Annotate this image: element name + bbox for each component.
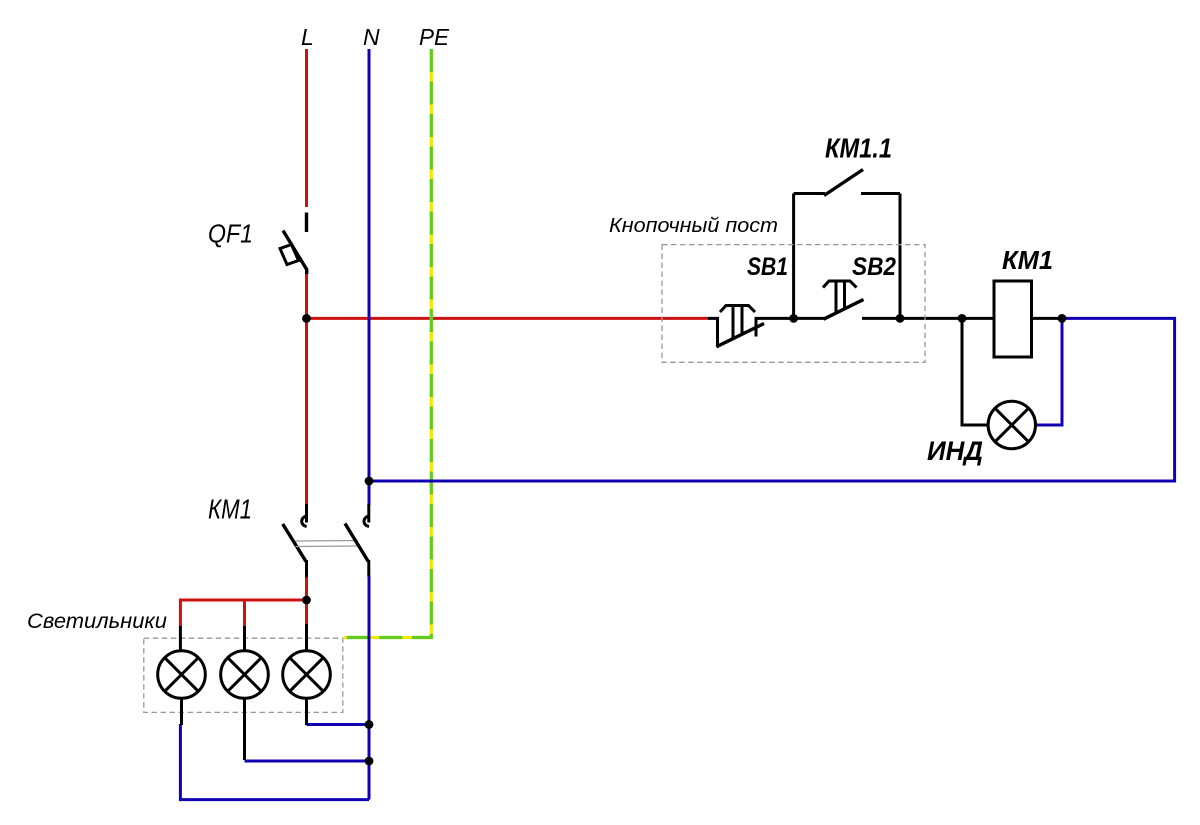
wire lamp3 bottom lead (black)	[305, 698, 308, 725]
contactor KM1 mechanical link line 2	[296, 545, 359, 548]
svg-text:КМ1.1: КМ1.1	[825, 133, 892, 164]
junction dot L to horizontal	[302, 314, 311, 323]
wire contactor pole1 output (red)	[305, 577, 308, 602]
wire main red horizontal to button post	[307, 317, 709, 320]
contactor KM1 pole2 moving contact	[345, 524, 368, 562]
wire neutral return loop from coil (blue)	[369, 318, 1175, 481]
svg-text:L: L	[301, 24, 314, 50]
lamp EL1 circle	[158, 651, 206, 699]
wire lamp2 neutral branch (blue)	[245, 760, 370, 763]
junction dot N bus / return loop	[365, 477, 374, 486]
lamp EL3 circle	[283, 651, 331, 699]
wire lamp3 neutral branch (blue)	[307, 723, 370, 726]
junction dot SB1-KM1.1 left	[789, 314, 798, 323]
contactor KM1 pole1 fixed hook arc	[302, 516, 307, 526]
contact KM1.1 right riser	[899, 194, 902, 319]
wire N bus below contactor (blue)	[368, 576, 371, 800]
wire lamp feed horizontal (red)	[179, 599, 307, 602]
wire lamp3 top lead (black)	[305, 624, 308, 651]
indicator lamp IND cross	[995, 408, 1029, 442]
svg-text:N: N	[363, 24, 380, 50]
svg-text:SB2: SB2	[852, 253, 896, 281]
breaker QF1 fixed tick	[305, 213, 308, 233]
button SB2 moving contact	[824, 300, 864, 320]
indicator lamp IND circle	[988, 401, 1035, 448]
wire L bus below QF1 down to contactor (red)	[305, 273, 308, 506]
lamp EL2 circle	[221, 651, 269, 699]
button SB1 actuator stem left	[732, 306, 735, 340]
button SB2 actuator bar	[823, 281, 857, 288]
contact KM1.1 right fixed lead	[861, 192, 900, 195]
luminaires dashed enclosure	[144, 638, 343, 712]
coil KM1 rectangle	[994, 281, 1032, 357]
wire L bus top (red)	[305, 49, 308, 207]
contactor KM1 pole2 fixed hook arc	[364, 516, 369, 526]
wire N bus top (blue)	[368, 49, 371, 505]
button SB1 right fixed lead	[756, 318, 824, 336]
wire lamp1 neutral branch (blue)	[180, 724, 369, 800]
svg-text:Светильники: Светильники	[27, 610, 167, 633]
contactor KM1 pole2 fixed stem	[367, 504, 370, 523]
lamp EL3 cross	[290, 658, 324, 692]
wire lamp1 bottom lead (black)	[180, 698, 183, 725]
svg-text:КМ1: КМ1	[1002, 245, 1053, 275]
contact KM1.1 moving contact	[824, 170, 863, 196]
button post dashed enclosure	[662, 245, 925, 363]
button SB1 moving contact	[716, 324, 764, 347]
svg-text:PE: PE	[419, 24, 450, 50]
wire lamp3 feed stub (red)	[305, 600, 308, 627]
svg-text:Кнопочный пост: Кнопочный пост	[609, 215, 778, 237]
wire SB2 right lead to coil (black)	[862, 317, 994, 320]
wire lamp2 bottom lead (black)	[243, 698, 246, 760]
button SB2 actuator stem left	[835, 281, 838, 313]
wire lamp1 top lead (black)	[179, 626, 182, 651]
breaker QF1 moving contact	[283, 231, 307, 275]
junction dot lamp2 neutral	[365, 757, 374, 766]
svg-text:SB1: SB1	[747, 253, 788, 281]
junction dot SB2-KM1.1 right	[896, 314, 905, 323]
svg-text:QF1: QF1	[208, 219, 253, 249]
breaker QF1 trip square	[280, 245, 299, 265]
junction dot coil left / lamp branch	[958, 314, 967, 323]
svg-text:ИНД: ИНД	[927, 436, 983, 466]
contactor KM1 mechanical link line 1	[296, 540, 359, 543]
button SB1 actuator stem right	[741, 306, 744, 336]
wire SB1 left lead (black)	[708, 318, 718, 346]
contactor KM1 pole2 lower stem	[367, 560, 370, 577]
contactor KM1 pole1 fixed stem	[305, 504, 308, 523]
contactor KM1 pole1 moving contact	[283, 524, 306, 562]
lamp EL2 cross	[228, 658, 262, 692]
wire PE bus green dashes	[344, 49, 431, 638]
button SB2 actuator stem right	[843, 281, 846, 309]
junction dot lamp3 neutral	[365, 720, 374, 729]
contact KM1.1 left riser	[792, 194, 795, 319]
junction dot coil right / neutral	[1058, 314, 1067, 323]
wire lamp1 feed stub (red)	[179, 600, 182, 627]
svg-text:КМ1: КМ1	[208, 493, 252, 524]
wire indicator lamp right lead (blue)	[1036, 318, 1063, 425]
wire indicator lamp left lead (black)	[962, 318, 988, 425]
wire lamp2 top lead (black)	[243, 626, 246, 651]
contact KM1.1 left fixed lead	[794, 192, 825, 195]
wire lamp2 feed stub (red)	[243, 600, 246, 627]
button SB1 actuator bar	[720, 306, 755, 313]
lamp EL1 cross	[165, 658, 199, 692]
wire coil right lead (black)	[1032, 317, 1063, 320]
junction dot contactor output / lamp feed	[302, 596, 311, 605]
wire PE bus yellow underlay	[344, 49, 431, 638]
contactor KM1 pole1 lower stem	[305, 560, 308, 578]
